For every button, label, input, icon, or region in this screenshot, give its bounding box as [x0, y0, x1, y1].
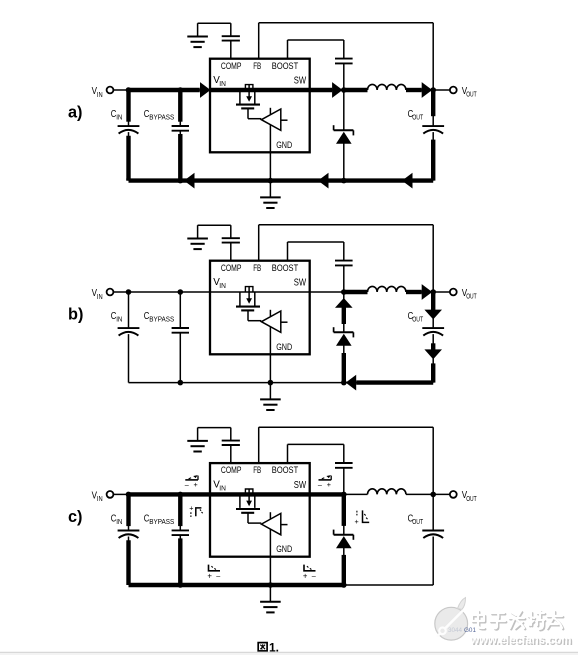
svg-text:OUT: OUT [412, 517, 423, 526]
svg-text:BYPASS: BYPASS [149, 517, 174, 526]
svg-text:b): b) [68, 306, 83, 324]
svg-text:FB: FB [253, 60, 261, 71]
svg-text:COMP: COMP [221, 464, 242, 475]
svg-text:–: – [216, 571, 220, 580]
svg-text:+: + [194, 480, 198, 489]
svg-text:–: – [185, 480, 189, 489]
svg-text:3044: 3044 [448, 627, 462, 634]
svg-text:IN: IN [219, 281, 226, 290]
svg-text:SW: SW [294, 76, 307, 87]
svg-text:BYPASS: BYPASS [149, 315, 174, 324]
svg-text:BOOST: BOOST [272, 60, 299, 71]
svg-text:FB: FB [253, 464, 261, 475]
svg-text:a): a) [68, 104, 82, 122]
svg-text:IN: IN [219, 79, 226, 88]
svg-text:COMP: COMP [221, 60, 242, 71]
svg-text:BOOST: BOOST [272, 464, 299, 475]
svg-text:OUT: OUT [412, 314, 423, 323]
svg-text:IN: IN [219, 483, 226, 492]
svg-text:GND: GND [276, 342, 292, 352]
svg-text:IN: IN [116, 315, 122, 324]
svg-text:+: + [207, 572, 212, 581]
svg-text:BOOST: BOOST [272, 262, 299, 273]
svg-text:IN: IN [116, 113, 122, 122]
svg-text:c): c) [68, 508, 82, 526]
svg-text:+: + [189, 504, 193, 513]
svg-text:FB: FB [253, 262, 261, 273]
svg-text:COMP: COMP [221, 262, 242, 273]
svg-text:SW: SW [294, 480, 307, 491]
svg-text:SW: SW [294, 278, 307, 289]
svg-text:OUT: OUT [466, 89, 477, 98]
svg-text:IN: IN [116, 517, 122, 526]
svg-text:+: + [303, 572, 308, 581]
svg-text:GND: GND [276, 140, 292, 150]
svg-text:+: + [354, 517, 358, 526]
svg-text:IN: IN [97, 90, 103, 99]
svg-text:GND: GND [276, 544, 292, 554]
svg-text:www.elecfans.com: www.elecfans.com [470, 633, 572, 647]
svg-text:+: + [327, 480, 331, 489]
svg-text:IN: IN [97, 292, 103, 301]
svg-text:BYPASS: BYPASS [149, 113, 174, 122]
svg-text:IN: IN [97, 494, 103, 503]
svg-text:OUT: OUT [466, 291, 477, 300]
svg-text:–: – [312, 571, 316, 580]
svg-text:OUT: OUT [466, 494, 477, 503]
svg-text:OUT: OUT [412, 112, 423, 121]
svg-text:–: – [318, 480, 322, 489]
